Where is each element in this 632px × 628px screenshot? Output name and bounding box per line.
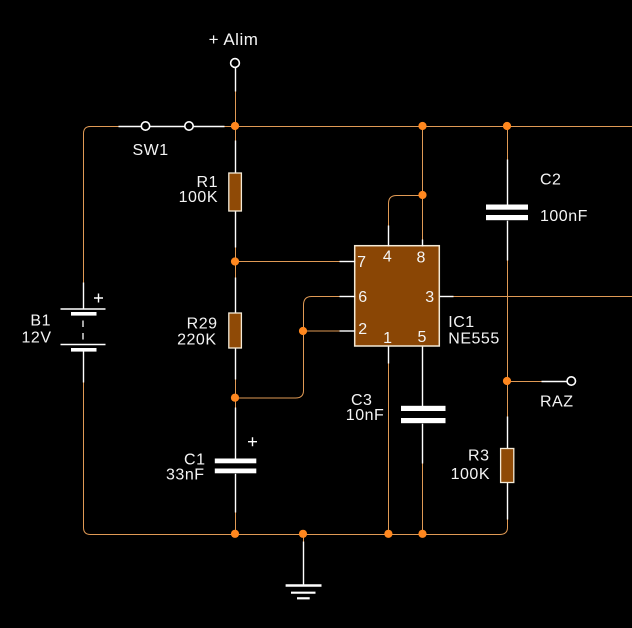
wire left rail from switch corner down to battery top (84, 127, 91, 284)
terminal RAZ (540, 377, 576, 411)
svg-text:+ Alim: + Alim (209, 30, 259, 49)
wire pin 4 branch (389, 196, 423, 227)
wire bottom ground rail (91, 534, 501, 536)
svg-text:33nF: 33nF (166, 467, 204, 484)
resistor R29 (177, 278, 241, 380)
pin 3 lead (425, 289, 453, 306)
svg-text:100K: 100K (451, 466, 490, 483)
svg-text:10nF: 10nF (346, 407, 384, 424)
pin 2 lead (340, 321, 368, 338)
node R1/R29/pin7 junction (231, 257, 239, 265)
wire IC pin 6 to node (304, 297, 342, 332)
wire R1 top stub (235, 127, 237, 143)
wire R1 bottom to node (235, 247, 237, 263)
svg-text:SW1: SW1 (133, 142, 169, 159)
wire node to IC pin 7 (236, 261, 342, 263)
node C2/RAZ/R3 junction (503, 377, 511, 385)
pin 5 lead (417, 329, 426, 346)
wire R3 bottom corner to ground rail (500, 518, 508, 535)
wire C1 bottom to ground rail (235, 512, 237, 535)
svg-text:NE555: NE555 (448, 330, 499, 347)
pin 1 lead (383, 330, 392, 364)
node pin6/pin2 junction (299, 327, 307, 335)
node C3/ground-rail junction (418, 530, 426, 538)
wire R29 top stub (235, 262, 237, 280)
wire IC pin 3 output to right edge (453, 296, 632, 298)
svg-text:5: 5 (417, 329, 426, 346)
wire C3 bottom to ground rail (422, 463, 424, 535)
wire R3 top stub (507, 382, 509, 419)
node supply/SW1/R1 junction (231, 122, 239, 130)
svg-text:R3: R3 (468, 448, 489, 465)
svg-text:1: 1 (383, 330, 392, 347)
wire IC pin 1 to ground rail (388, 364, 390, 535)
resistor R3 (451, 417, 514, 520)
svg-text:RAZ: RAZ (540, 393, 574, 410)
capacitor C2 (486, 160, 588, 261)
wire battery bottom to lower-left corner of ground rail (84, 382, 91, 535)
switch SW1 (119, 122, 225, 159)
node supply/C2 junction (503, 122, 511, 130)
svg-text:R29: R29 (187, 316, 218, 333)
wire pin 8 vertical from top rail (422, 127, 424, 241)
wire IC pin 2 to node (304, 330, 342, 332)
ground (286, 542, 322, 599)
node pin1/ground-rail junction (384, 530, 392, 538)
svg-text:3: 3 (425, 289, 434, 306)
battery B1 (22, 283, 106, 383)
svg-text:100nF: 100nF (540, 208, 588, 225)
capacitor C1 (166, 408, 257, 513)
pin 8 lead (416, 240, 425, 267)
wire C2 top stub (507, 127, 509, 161)
pin 4 lead (383, 226, 392, 266)
resistor R1 (179, 141, 242, 248)
pin 6 lead (340, 289, 368, 306)
node pin8/pin4 junction (418, 191, 426, 199)
node ground-symbol junction (299, 530, 307, 538)
svg-text:2: 2 (358, 321, 367, 338)
op-amp U1 (IC1 NE555 timer body) (355, 246, 500, 348)
svg-text:IC1: IC1 (448, 314, 474, 331)
node supply/pin8 junction (418, 122, 426, 130)
node R29/C1 junction (231, 394, 239, 402)
svg-text:C2: C2 (540, 171, 561, 188)
svg-text:12V: 12V (22, 329, 52, 346)
wire top supply rail (89, 126, 632, 128)
wire R29 bottom stub (235, 378, 237, 399)
wire C2 bottom down to RAZ node (507, 260, 509, 382)
wire C1 top stub (235, 398, 237, 409)
wire RAZ node stub (508, 381, 542, 383)
svg-text:4: 4 (383, 249, 392, 266)
svg-text:8: 8 (416, 249, 425, 266)
wire node down and left to R29/C1 junction (236, 332, 304, 399)
node C1/ground-rail junction (231, 530, 239, 538)
terminal + Alim (209, 30, 259, 91)
svg-text:6: 6 (358, 289, 367, 306)
wire ground symbol stub (303, 535, 305, 543)
capacitor C3 (346, 347, 446, 464)
svg-text:B1: B1 (30, 313, 51, 330)
svg-text:7: 7 (357, 254, 366, 271)
pin 7 lead (340, 254, 367, 271)
wire +Alim terminal drop (235, 91, 237, 127)
svg-text:220K: 220K (177, 331, 216, 348)
svg-text:100K: 100K (179, 189, 218, 206)
